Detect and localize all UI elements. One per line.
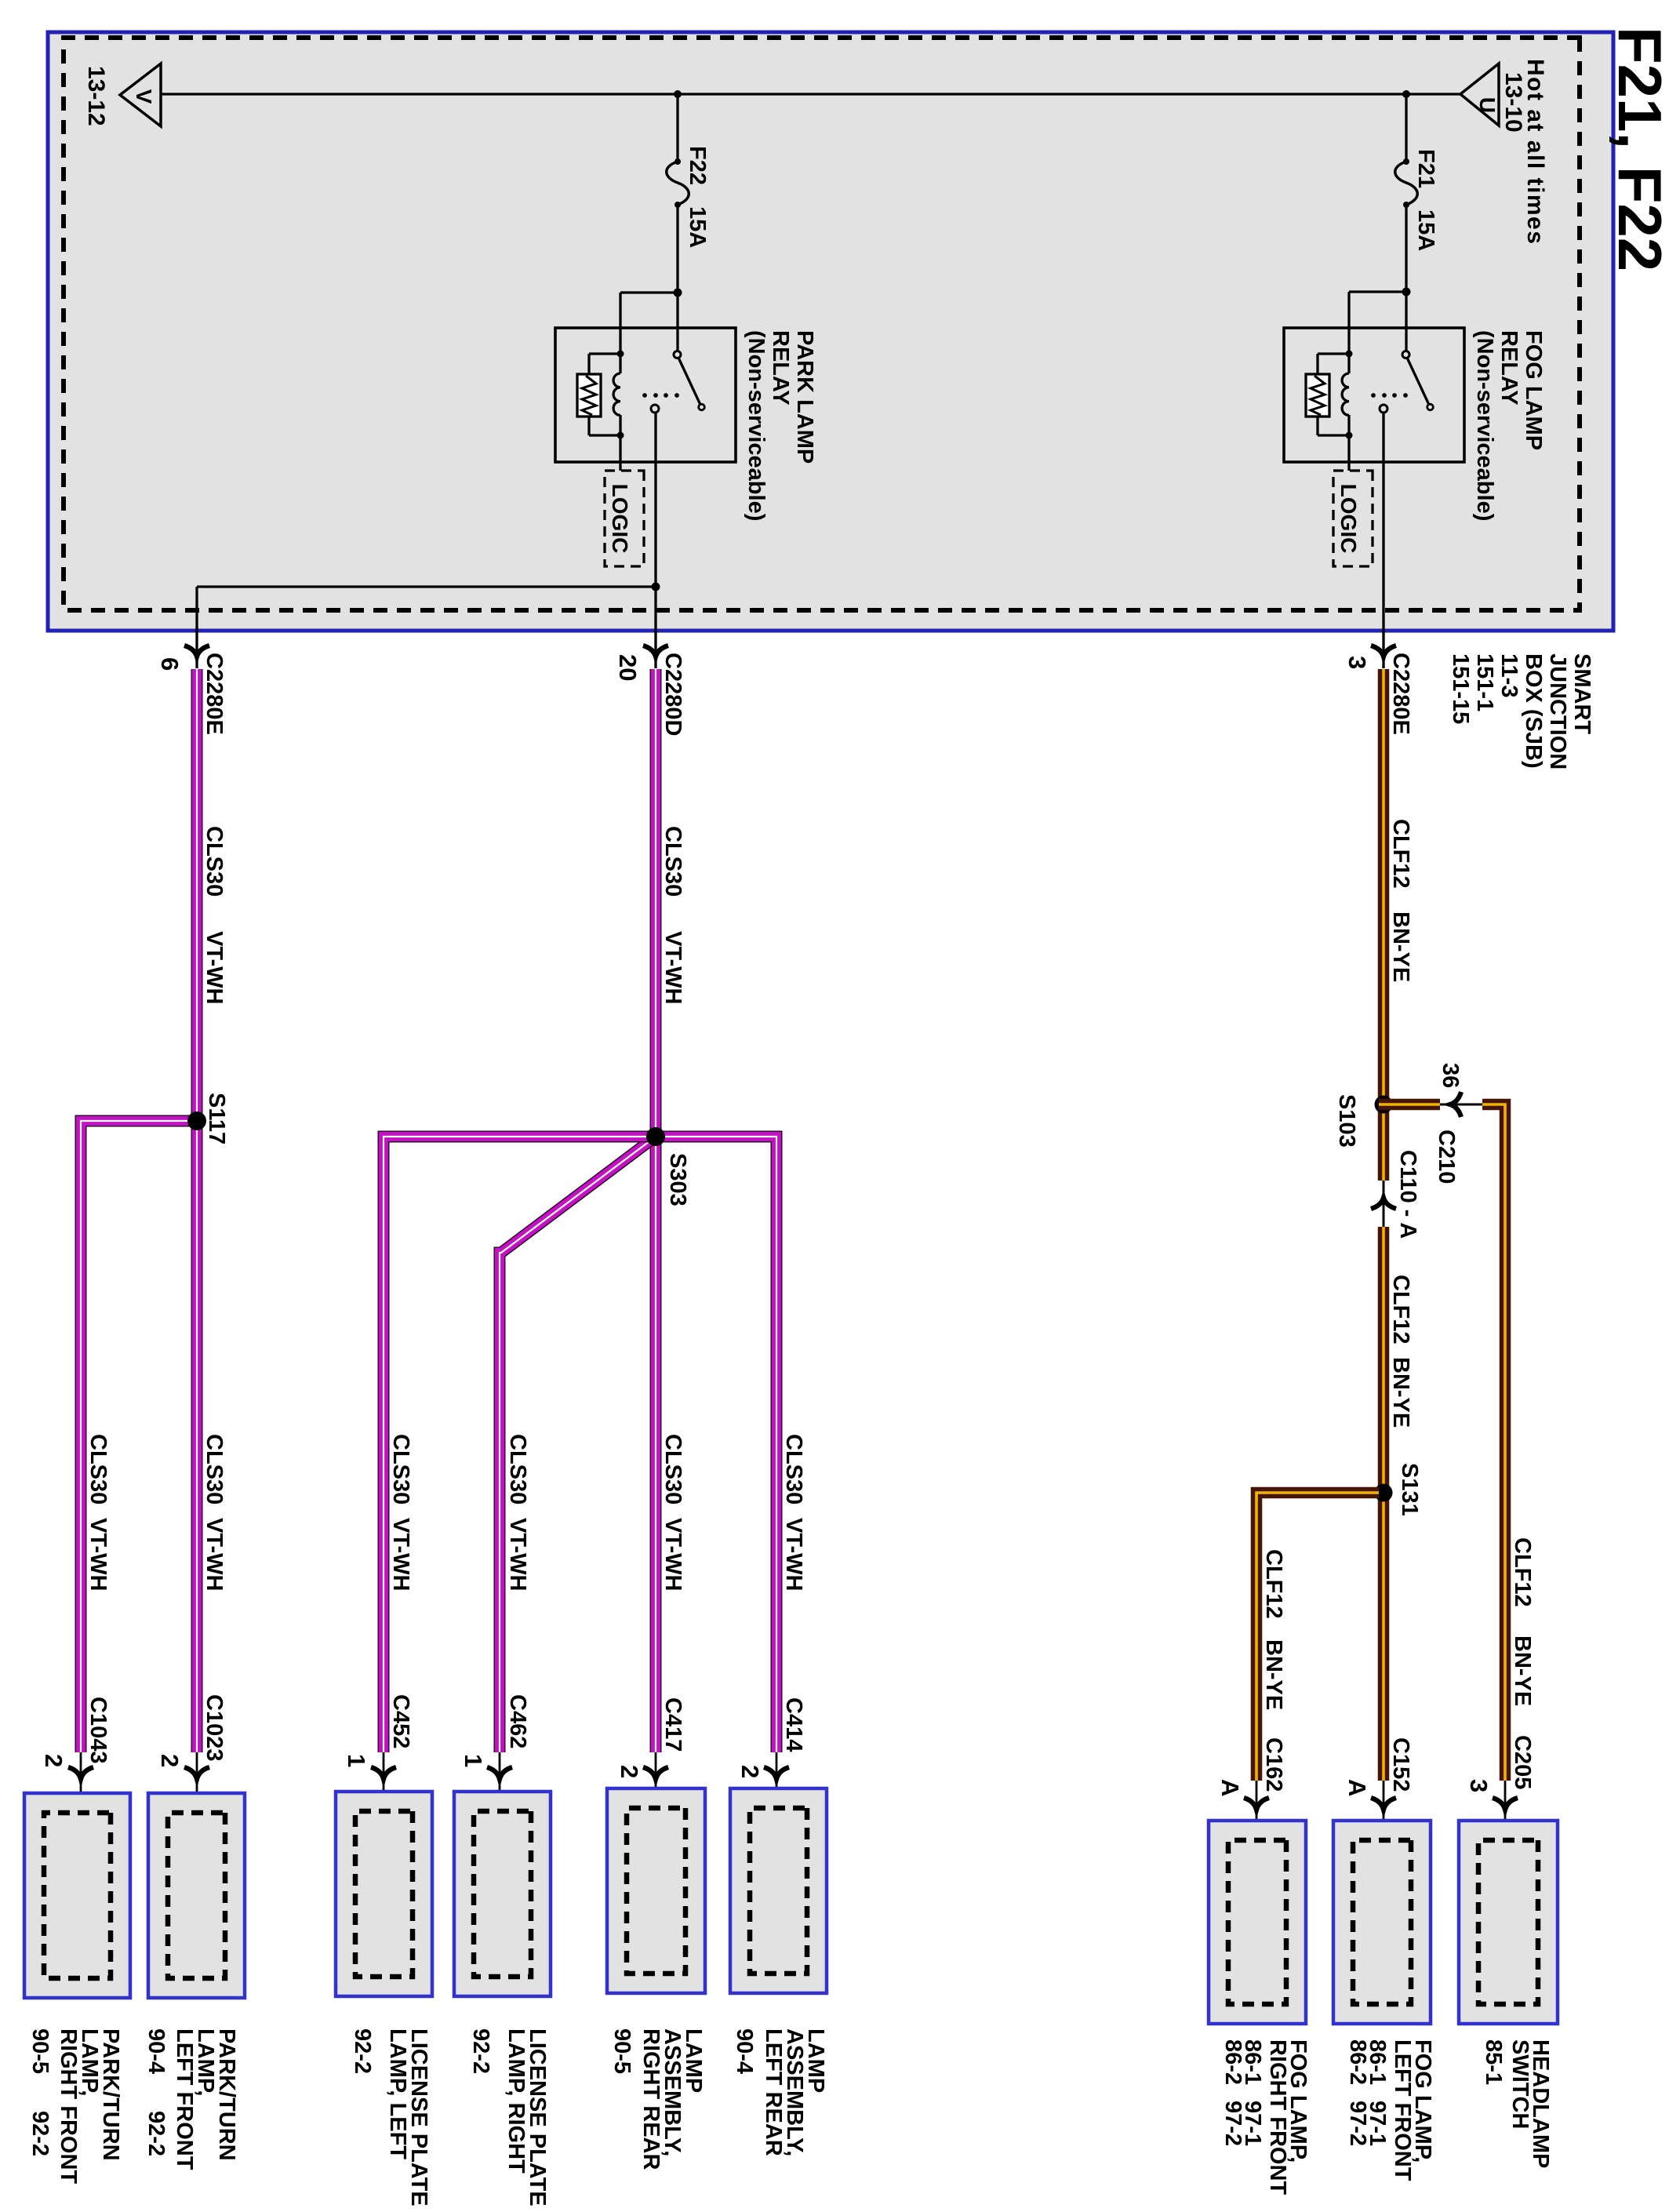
wire fuse to park relay	[676, 205, 678, 351]
fog relay output wire	[1382, 413, 1384, 668]
svg-text:CLF12: CLF12	[1261, 1549, 1286, 1619]
svg-text:13-12: 13-12	[83, 66, 109, 126]
svg-text:SMART: SMART	[1569, 653, 1594, 734]
svg-text:15A: 15A	[685, 206, 710, 248]
svg-text:(Non-serviceable): (Non-serviceable)	[744, 330, 769, 521]
svg-text:U: U	[1475, 97, 1500, 113]
component box lamp assembly right rear	[607, 1788, 705, 1993]
svg-text:RIGHT FRONT: RIGHT FRONT	[56, 2028, 81, 2184]
relay NO contact	[651, 405, 659, 413]
svg-text:11-3: 11-3	[1496, 653, 1522, 697]
splice S117	[187, 1111, 206, 1130]
svg-text:C417: C417	[660, 1697, 685, 1752]
svg-text:CLF12: CLF12	[1510, 1537, 1535, 1607]
svg-text:LAMP, RIGHT: LAMP, RIGHT	[504, 2028, 529, 2174]
component box fog lamp left front	[1333, 1821, 1431, 2024]
relay switch common terminal	[1402, 351, 1409, 358]
park relay output wire	[654, 413, 656, 668]
svg-text:1: 1	[343, 1754, 370, 1767]
svg-text:LOGIC: LOGIC	[1336, 484, 1361, 554]
wire fuse to fog relay	[1405, 205, 1407, 351]
svg-text:CLS30: CLS30	[85, 1434, 111, 1504]
svg-text:C2280E: C2280E	[202, 653, 227, 735]
svg-text:RELAY: RELAY	[1496, 330, 1522, 406]
svg-text:C452: C452	[388, 1694, 413, 1748]
svg-text:VT-WH: VT-WH	[660, 1518, 685, 1591]
svg-text:VT-WH: VT-WH	[505, 1518, 530, 1591]
svg-text:V: V	[132, 89, 156, 104]
svg-text:151-1: 151-1	[1472, 653, 1497, 711]
wire branch S117 to right front	[81, 1121, 197, 1752]
svg-text:FOG LAMP: FOG LAMP	[1521, 330, 1546, 450]
LOGIC box	[605, 471, 644, 566]
wire CLS30 VT-WH pin6 run	[191, 669, 203, 1752]
fuse F21 15A	[1395, 162, 1418, 205]
svg-text:F21, F22: F21, F22	[1605, 27, 1669, 271]
connector entry license plate lamp right	[499, 1752, 501, 1814]
wire splitter to pin 6	[195, 587, 198, 668]
svg-text:C110 - A: C110 - A	[1395, 1150, 1420, 1239]
svg-text:VT-WH: VT-WH	[202, 1518, 227, 1591]
component box headlamp switch	[1459, 1821, 1558, 2024]
connector C110-A inline	[1383, 1181, 1385, 1227]
svg-text:2: 2	[736, 1765, 764, 1778]
svg-text:C162: C162	[1261, 1737, 1286, 1792]
node at park relay feed	[674, 289, 682, 297]
relay coil	[617, 351, 624, 358]
svg-text:VT-WH: VT-WH	[781, 1518, 806, 1591]
relay switch arm	[678, 358, 700, 405]
svg-text:6: 6	[156, 657, 184, 671]
svg-text:A: A	[1344, 1779, 1371, 1796]
svg-text:LOGIC: LOGIC	[608, 484, 632, 554]
svg-text:C1043: C1043	[85, 1697, 111, 1763]
svg-text:3: 3	[1344, 656, 1371, 669]
relay switch arm	[1407, 358, 1429, 405]
relay resistor	[1318, 352, 1349, 355]
svg-text:BN-YE: BN-YE	[1388, 911, 1413, 982]
svg-text:VT-WH: VT-WH	[85, 1518, 111, 1591]
svg-text:LEFT FRONT: LEFT FRONT	[1390, 2039, 1415, 2181]
svg-text:20: 20	[614, 654, 642, 681]
connector entry fog lamp left front	[1383, 1781, 1385, 1843]
junction node on bus	[1402, 90, 1410, 98]
svg-text:92-2: 92-2	[27, 2111, 53, 2156]
connector entry lamp assembly left rear	[776, 1752, 778, 1811]
svg-text:CLS30: CLS30	[202, 1434, 227, 1504]
wire CLF12 BN-YE fog feed	[1378, 669, 1390, 1181]
relay coil	[1346, 351, 1353, 358]
park lamp relay box	[555, 328, 736, 462]
svg-text:90-4: 90-4	[732, 2028, 757, 2074]
svg-text:97-2: 97-2	[1220, 2101, 1245, 2146]
svg-text:C205: C205	[1510, 1735, 1535, 1789]
relay linkage dots	[675, 393, 679, 398]
svg-text:92-2: 92-2	[350, 2028, 375, 2074]
relay resistor	[589, 352, 620, 355]
wire bus to fuse F22	[676, 94, 678, 162]
svg-text:C462: C462	[505, 1694, 530, 1748]
svg-text:C152: C152	[1388, 1737, 1413, 1792]
wire feed to coil	[620, 291, 678, 293]
connector entry lamp assembly right rear	[655, 1752, 657, 1811]
wire branch S103 up	[1379, 1099, 1440, 1111]
svg-text:86-2: 86-2	[1345, 2039, 1370, 2085]
wire branch S303 to license left	[384, 1137, 656, 1752]
svg-text:(Non-serviceable): (Non-serviceable)	[1472, 330, 1497, 521]
svg-text:VT-WH: VT-WH	[202, 931, 227, 1004]
relay switch common terminal	[674, 351, 681, 358]
svg-text:VT-WH: VT-WH	[660, 931, 685, 1004]
svg-text:86-2: 86-2	[1220, 2039, 1245, 2085]
svg-text:RIGHT FRONT: RIGHT FRONT	[1265, 2039, 1290, 2195]
svg-text:C210: C210	[1434, 1130, 1459, 1184]
smart junction box (SJB) outline	[48, 32, 1613, 631]
page ref triangle V	[120, 64, 161, 126]
connector entry fog lamp right front	[1256, 1781, 1258, 1843]
connector C2280E exit pin 3	[1371, 646, 1396, 657]
bus wire	[161, 93, 1460, 95]
svg-text:RIGHT REAR: RIGHT REAR	[638, 2028, 664, 2170]
svg-text:CLS30: CLS30	[660, 1434, 685, 1504]
power feed triangle U	[1460, 64, 1499, 126]
wire CLF12 BN-YE to S131	[1378, 1227, 1390, 1781]
connector C210 inline	[1440, 1104, 1482, 1106]
connector C2280D exit pin 20	[643, 646, 668, 657]
svg-text:C1023: C1023	[202, 1694, 227, 1761]
svg-text:151-15: 151-15	[1448, 653, 1473, 724]
svg-text:97-2: 97-2	[1345, 2101, 1370, 2146]
svg-text:CLS30: CLS30	[505, 1434, 530, 1504]
splice S103	[1375, 1096, 1393, 1114]
svg-text:36: 36	[1438, 1063, 1463, 1088]
connector C2280E exit pin 6	[184, 646, 209, 657]
wire coil to logic	[1347, 435, 1350, 471]
connector entry park/turn lamp left front	[196, 1752, 198, 1816]
SJB dashed border	[64, 38, 1580, 610]
svg-text:1: 1	[460, 1754, 487, 1767]
component box license plate lamp left	[336, 1792, 432, 1996]
wire branch S303 to left rear	[656, 1137, 776, 1752]
svg-text:PARK LAMP: PARK LAMP	[792, 330, 817, 464]
svg-text:13-10: 13-10	[1500, 72, 1526, 133]
svg-text:S131: S131	[1397, 1463, 1422, 1516]
component box license plate lamp right	[454, 1792, 551, 1996]
component box lamp assembly left rear	[730, 1788, 827, 1993]
svg-text:3: 3	[1465, 1779, 1493, 1792]
svg-text:92-2: 92-2	[468, 2028, 493, 2074]
svg-text:S117: S117	[204, 1093, 229, 1144]
svg-text:BN-YE: BN-YE	[1388, 1357, 1413, 1428]
wire coil to logic	[619, 435, 621, 471]
svg-text:C2280D: C2280D	[660, 653, 685, 736]
LOGIC box	[1333, 471, 1373, 566]
svg-text:C2280E: C2280E	[1388, 653, 1413, 735]
svg-text:F22: F22	[685, 146, 710, 185]
junction node on bus	[674, 90, 682, 98]
svg-text:VT-WH: VT-WH	[388, 1518, 413, 1591]
svg-text:CLF12: CLF12	[1388, 819, 1413, 889]
fog lamp relay box	[1284, 328, 1464, 462]
junction node splitter	[652, 583, 660, 591]
svg-text:CLS30: CLS30	[781, 1434, 806, 1504]
wire branch S303 to license right	[500, 1137, 656, 1752]
svg-text:CLF12: CLF12	[1388, 1275, 1413, 1344]
component box park/turn lamp right front	[24, 1793, 130, 1998]
connector entry headlamp switch	[1504, 1781, 1507, 1843]
wire bus to fuse F21	[1405, 94, 1407, 162]
svg-text:S103: S103	[1334, 1094, 1359, 1148]
svg-text:15A: 15A	[1413, 209, 1438, 251]
svg-text:BOX (SJB): BOX (SJB)	[1521, 653, 1546, 769]
svg-text:SWITCH: SWITCH	[1507, 2039, 1533, 2129]
relay linkage dots	[1403, 393, 1408, 398]
svg-text:F21: F21	[1413, 149, 1438, 188]
svg-text:C414: C414	[781, 1697, 806, 1752]
fuse F22 15A	[667, 162, 689, 205]
svg-text:BN-YE: BN-YE	[1510, 1635, 1535, 1706]
node at fog relay feed	[1402, 288, 1411, 297]
wire CLF12 BN-YE to fog right front	[1256, 1493, 1379, 1781]
connector entry license plate lamp left	[383, 1752, 385, 1814]
svg-text:CLS30: CLS30	[202, 826, 227, 897]
svg-text:85-1: 85-1	[1481, 2039, 1506, 2085]
svg-text:S303: S303	[665, 1153, 690, 1206]
svg-text:2: 2	[616, 1765, 643, 1778]
svg-text:RELAY: RELAY	[768, 330, 793, 406]
component box fog lamp right front	[1209, 1821, 1306, 2024]
component box park/turn lamp left front	[148, 1793, 245, 1998]
wire CLS30 VT-WH park feed	[650, 669, 662, 1752]
svg-text:BN-YE: BN-YE	[1261, 1639, 1286, 1710]
relay NO contact	[1380, 405, 1387, 413]
svg-text:LEFT FRONT: LEFT FRONT	[172, 2028, 197, 2170]
svg-text:CLS30: CLS30	[388, 1434, 413, 1504]
svg-text:90-5: 90-5	[609, 2028, 635, 2074]
svg-text:2: 2	[156, 1754, 184, 1767]
wire feed to coil	[1349, 290, 1406, 293]
wire CLF12 BN-YE to headlamp switch	[1482, 1104, 1505, 1781]
splice S131	[1375, 1484, 1393, 1502]
svg-text:LEFT REAR: LEFT REAR	[761, 2028, 786, 2156]
connector entry park/turn lamp right front	[80, 1752, 82, 1816]
svg-text:LAMP, LEFT: LAMP, LEFT	[385, 2028, 410, 2159]
wire splitter drop	[197, 585, 656, 588]
svg-text:92-2: 92-2	[144, 2111, 169, 2156]
svg-text:CLS30: CLS30	[660, 826, 685, 897]
svg-text:2: 2	[40, 1754, 67, 1767]
svg-text:A: A	[1216, 1779, 1244, 1796]
svg-text:90-4: 90-4	[144, 2028, 169, 2074]
svg-text:JUNCTION: JUNCTION	[1545, 653, 1570, 769]
svg-text:90-5: 90-5	[27, 2028, 53, 2074]
splice S303	[646, 1127, 665, 1146]
